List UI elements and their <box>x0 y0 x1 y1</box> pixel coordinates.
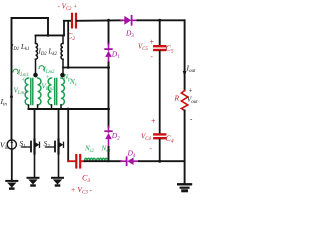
wire S1 drain drop <box>34 109 36 140</box>
transformer T1 primary winding <box>25 78 28 105</box>
wire mid rail y35 <box>36 34 65 36</box>
wire T1 secondary bottom drop <box>37 105 39 109</box>
ground S2 <box>52 178 63 186</box>
label VLm1 <box>14 78 27 96</box>
wire left input rail <box>11 18 13 140</box>
transformer T1 core <box>31 79 33 105</box>
transformer T2 secondary winding <box>61 78 64 105</box>
ground output <box>178 184 191 191</box>
winding Ns2 <box>85 158 96 161</box>
svg-text:+: + <box>189 87 193 95</box>
wire top-left rail <box>12 17 49 19</box>
svg-text:R: R <box>174 94 180 103</box>
wire output cap bus bottom <box>159 139 161 161</box>
wire C2 right-drop vertical <box>67 21 69 68</box>
wire right edge bottom <box>184 111 186 185</box>
mosfet S1 <box>22 140 40 178</box>
capacitor C3 <box>76 155 80 168</box>
node junction dots <box>47 19 162 163</box>
wire top rail to right edge <box>138 19 185 21</box>
wire C2 left vertical <box>63 21 65 36</box>
svg-text:+: + <box>151 117 156 126</box>
wire C3 branch drop <box>67 109 69 161</box>
ground S1 <box>28 178 39 186</box>
svg-text:+ VC3 -: + VC3 - <box>71 185 93 196</box>
capacitor C2 <box>72 14 76 28</box>
wire C2 left lead <box>64 20 71 22</box>
resistor R <box>181 91 187 111</box>
diode D1 <box>105 44 112 63</box>
inductor Lk1 <box>36 35 38 76</box>
label ILm1 <box>13 69 29 78</box>
wire diode bus top <box>108 20 110 44</box>
wire bottom bus right <box>139 160 185 162</box>
wire diode bus bottom <box>108 147 110 161</box>
node T1 feed blob <box>33 73 38 78</box>
wire S2 drain drop <box>58 109 60 140</box>
arrow Iout <box>183 71 187 78</box>
transformer T2 primary winding <box>48 78 51 105</box>
svg-text:+: + <box>150 38 155 47</box>
wire diode bus lower <box>108 109 110 127</box>
label VLm2 <box>42 75 55 92</box>
wire top rail right of C2 <box>77 19 122 22</box>
wire T2 primary bottom drop <box>51 105 53 109</box>
transformer T2 core <box>55 79 57 105</box>
wire bottom bus under windings <box>85 160 122 162</box>
wire diode bus middle <box>108 63 110 110</box>
capacitor C4 <box>154 134 165 138</box>
node T2 feed blob <box>60 73 65 78</box>
wire horizontal y67 to diode bus <box>63 67 109 69</box>
diode D2 <box>105 127 112 148</box>
wire T2 secondary bottom drop <box>60 105 62 109</box>
wire drain bus y109 <box>29 108 109 110</box>
wire C3 red right lead <box>81 160 85 162</box>
mosfet S2 <box>46 140 64 178</box>
winding Ns3 <box>97 158 108 161</box>
diode D4 <box>121 157 139 165</box>
capacitor C5 <box>154 46 165 50</box>
wire right edge top <box>184 20 186 90</box>
wire output cap bus middle <box>159 51 161 133</box>
diode D3 <box>121 16 138 25</box>
wire C3 red left lead <box>68 160 75 162</box>
arrow Iin <box>10 93 13 98</box>
wire big-loop right edge <box>47 18 49 35</box>
inductor Lk2 <box>61 35 63 76</box>
source Vin <box>7 140 16 149</box>
wire Vin to ground <box>11 149 13 181</box>
label ILm2 <box>39 66 55 75</box>
wire T1 primary bottom drop <box>28 105 30 109</box>
wire output cap bus top <box>159 20 161 45</box>
transformer T1 secondary winding <box>38 78 41 105</box>
ground Vin <box>6 181 17 189</box>
